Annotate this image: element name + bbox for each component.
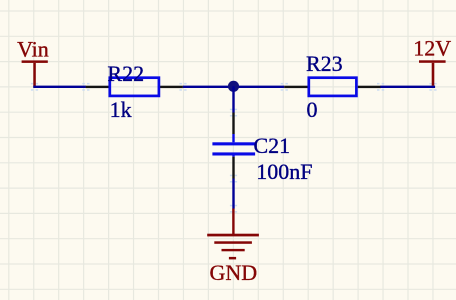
resistor R22 [86, 78, 183, 96]
svg-text:R22: R22 [107, 61, 144, 86]
svg-text:C21: C21 [254, 133, 291, 158]
pin connection markers [31, 83, 437, 213]
power port 12V [413, 36, 451, 86]
wire junction down to C21 [232, 86, 234, 112]
capacitor C21 [212, 113, 255, 179]
wire R22 to junction to R23 [183, 86, 284, 88]
svg-text:12V: 12V [413, 36, 451, 61]
junction node dot [228, 81, 239, 92]
svg-text:0: 0 [307, 97, 318, 122]
wire C21 to GND [232, 179, 234, 209]
svg-text:R23: R23 [306, 51, 343, 76]
svg-text:Vin: Vin [17, 36, 49, 61]
svg-text:100nF: 100nF [256, 159, 312, 184]
svg-text:GND: GND [210, 260, 258, 285]
wire Vin to R22 [33, 86, 86, 88]
ground GND power port [207, 209, 259, 285]
power port Vin [17, 36, 49, 87]
svg-text:1k: 1k [110, 97, 132, 122]
resistor R23 [284, 78, 381, 96]
wire R23 to 12V [380, 86, 435, 88]
